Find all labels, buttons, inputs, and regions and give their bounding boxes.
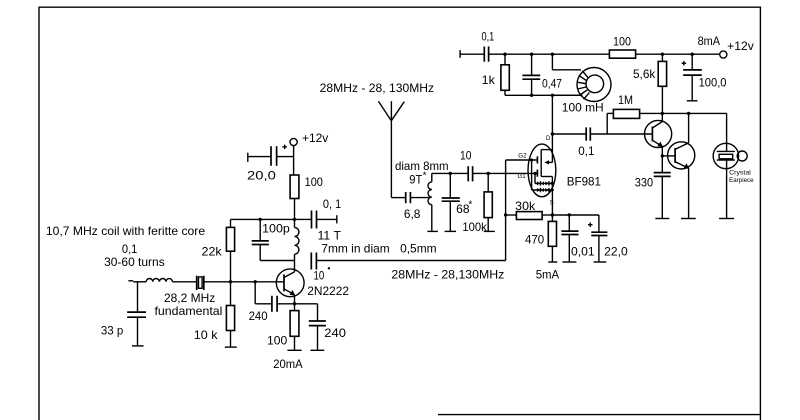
capacitor 22,0 electrolytic xyxy=(588,215,628,262)
label coil note xyxy=(46,224,206,269)
inductor input coil xyxy=(146,278,172,281)
svg-text:fundamental: fundamental xyxy=(155,304,223,318)
svg-text:100: 100 xyxy=(613,34,631,48)
capacitor 20,0 electrolytic xyxy=(247,145,294,183)
svg-text:0,1: 0,1 xyxy=(482,29,495,43)
wire to G1 xyxy=(473,172,538,175)
label 8mA xyxy=(698,34,721,48)
svg-text:100,0: 100,0 xyxy=(699,75,727,89)
resistor 22k xyxy=(202,219,235,281)
inductor 9T coil xyxy=(395,159,449,232)
svg-text:8mA: 8mA xyxy=(698,34,721,48)
wire xyxy=(293,146,295,176)
capacitor 240 (feedback) xyxy=(249,282,297,323)
capacitor 68 xyxy=(442,173,473,231)
svg-text:28MHz - 28,130MHz: 28MHz - 28,130MHz xyxy=(391,267,504,281)
svg-text:*: * xyxy=(468,199,472,210)
capacitor 0,1 (rail decoupling) xyxy=(482,29,495,61)
transistor Q2 (emitter follower) xyxy=(662,112,696,219)
wire input xyxy=(133,281,146,283)
svg-text:10: 10 xyxy=(460,148,472,162)
svg-text:5mA: 5mA xyxy=(536,268,560,282)
svg-text:0, 1: 0, 1 xyxy=(323,197,342,211)
svg-text:+12v: +12v xyxy=(302,131,328,145)
capacitor 330 xyxy=(635,154,671,218)
resistor 1k xyxy=(482,54,510,95)
capacitor 100p xyxy=(252,219,295,260)
inductor 100 mH toroid xyxy=(552,54,611,114)
wire (1k/0,47/choke bottom node) xyxy=(505,94,583,97)
svg-text:100: 100 xyxy=(267,334,288,348)
resistor 470 xyxy=(525,215,557,262)
svg-text:5,6k: 5,6k xyxy=(633,67,656,81)
svg-text:330: 330 xyxy=(635,175,654,189)
transistor Q1 (emitter follower) xyxy=(645,112,672,156)
svg-text:33 p: 33 p xyxy=(101,323,124,337)
svg-text:Crystal: Crystal xyxy=(729,170,751,177)
resistor 100 (oscillator supply) xyxy=(290,175,323,228)
antenna xyxy=(378,101,404,197)
wire xyxy=(391,197,405,199)
input terminal dash xyxy=(128,280,133,282)
svg-text:BF981: BF981 xyxy=(567,175,602,189)
svg-text:100: 100 xyxy=(305,175,324,189)
svg-text:S: S xyxy=(550,201,554,207)
svg-text:10: 10 xyxy=(314,269,325,283)
capacitor 0,01 xyxy=(561,215,595,262)
svg-text:1M: 1M xyxy=(618,93,633,107)
svg-text:100p: 100p xyxy=(262,222,290,236)
protection diodes row1 (G1) xyxy=(533,172,553,186)
svg-text:+12v: +12v xyxy=(727,39,754,53)
resistor 100 (emitter) xyxy=(267,311,303,372)
svg-text:28,2 MHz: 28,2 MHz xyxy=(164,291,215,305)
svg-text:9T: 9T xyxy=(409,173,423,187)
crystal earpiece xyxy=(713,113,754,218)
capacitor 6,8 xyxy=(404,192,421,221)
terminal tick left of 0,1 xyxy=(459,50,461,58)
capacitor 10 (osc output to mixer) xyxy=(311,253,330,283)
resistor 30k xyxy=(506,199,553,219)
wire LO line xyxy=(317,261,506,282)
wire to base xyxy=(204,280,284,283)
svg-text:240: 240 xyxy=(249,309,268,323)
svg-text:G2: G2 xyxy=(518,153,527,159)
capacitor 33 p xyxy=(101,282,146,346)
svg-text:30-60 turns: 30-60 turns xyxy=(104,255,165,269)
protection diodes row2 (G2) xyxy=(532,160,554,192)
svg-text:0,47: 0,47 xyxy=(542,76,562,90)
svg-text:7mm in diam: 7mm in diam xyxy=(321,241,389,255)
wire xyxy=(172,281,196,283)
capacitor 0,1 (oscillator output top) xyxy=(312,197,342,228)
label 28MHz - 28, 130MHz xyxy=(320,81,434,95)
capacitor 240 (emitter bypass) xyxy=(295,304,347,351)
svg-text:20mA: 20mA xyxy=(273,357,302,371)
G2 lead xyxy=(506,158,538,161)
capacitor 10 xyxy=(460,148,473,181)
svg-text:Earpiece: Earpiece xyxy=(729,177,754,184)
svg-text:22k: 22k xyxy=(202,244,223,258)
svg-text:2N2222: 2N2222 xyxy=(307,284,349,298)
svg-text:20,0: 20,0 xyxy=(247,168,276,182)
svg-text:10 k: 10 k xyxy=(194,328,219,342)
wire node y=219 xyxy=(231,218,312,221)
capacitor 0,1 coupling xyxy=(552,127,652,158)
terminal +12v (top right) xyxy=(720,39,754,58)
mosfet BF981 U1 xyxy=(518,136,602,215)
svg-text:10,7 MHz coil with feritte cor: 10,7 MHz coil with feritte core xyxy=(46,224,206,238)
inductor 11T xyxy=(295,228,437,261)
svg-text:diam 8mm: diam 8mm xyxy=(395,159,449,173)
svg-text:G1: G1 xyxy=(518,174,527,180)
wire to coil tap xyxy=(411,197,429,199)
svg-text:0,1: 0,1 xyxy=(578,144,595,158)
svg-text:100 mH: 100 mH xyxy=(562,101,604,115)
svg-text:22,0: 22,0 xyxy=(604,245,628,259)
node dots on rail xyxy=(503,53,694,56)
resistor 100k xyxy=(462,173,494,234)
svg-text:470: 470 xyxy=(525,232,545,246)
svg-text:1k: 1k xyxy=(482,73,496,87)
capacitor 0,47 xyxy=(522,54,562,95)
wire drain drop xyxy=(551,95,554,144)
svg-text:30k: 30k xyxy=(515,199,536,213)
wire signal line xyxy=(432,172,468,175)
wire G2 vertical to LO xyxy=(504,160,507,261)
capacitor 100,0 electrolytic xyxy=(682,54,727,101)
svg-text:6,8: 6,8 xyxy=(404,207,421,221)
svg-text:100k: 100k xyxy=(462,220,487,234)
resistor 100 (horizontal, supply) xyxy=(609,34,635,58)
svg-text:0,5mm: 0,5mm xyxy=(400,241,437,255)
resistor 5,6k xyxy=(633,54,667,113)
svg-text:28MHz - 28, 130MHz: 28MHz - 28, 130MHz xyxy=(320,81,434,95)
resistor 10 k xyxy=(194,282,237,347)
label 5mA xyxy=(536,268,560,282)
wire xyxy=(460,53,484,55)
svg-text:0,01: 0,01 xyxy=(571,245,595,259)
wire top rail xyxy=(489,53,720,55)
resistor 1M xyxy=(607,93,726,134)
svg-text:240: 240 xyxy=(324,326,346,340)
terminal +12v (oscillator) xyxy=(290,131,328,145)
svg-text:11 T: 11 T xyxy=(318,228,342,242)
svg-text:0,1: 0,1 xyxy=(122,242,138,256)
svg-text:D: D xyxy=(546,136,551,142)
crystal 28,2 MHz xyxy=(155,276,223,318)
transistor 2N2222 xyxy=(276,261,349,312)
wire source node xyxy=(551,213,599,216)
